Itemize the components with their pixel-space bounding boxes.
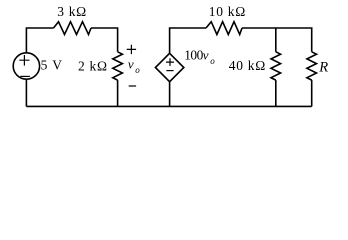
svg-text:40 kΩ: 40 kΩ xyxy=(229,58,266,73)
svg-text:5 V: 5 V xyxy=(41,58,63,73)
svg-text:o: o xyxy=(135,65,140,75)
svg-text:3 kΩ: 3 kΩ xyxy=(57,4,87,19)
svg-text:v: v xyxy=(128,57,134,72)
svg-text:o: o xyxy=(210,56,215,66)
svg-text:100: 100 xyxy=(184,48,203,63)
svg-text:10 kΩ: 10 kΩ xyxy=(209,4,246,19)
svg-text:R: R xyxy=(318,59,328,75)
svg-text:2 kΩ: 2 kΩ xyxy=(78,59,108,74)
svg-text:v: v xyxy=(203,47,209,62)
